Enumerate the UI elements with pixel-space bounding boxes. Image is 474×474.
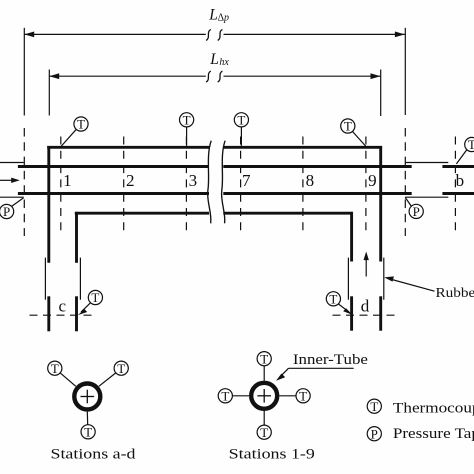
cross-section a-d thermocouple upper-left bbox=[48, 361, 62, 376]
tube b segment walls bbox=[442, 167, 474, 194]
cross-section a-d thermocouple bottom bbox=[81, 424, 95, 439]
svg-text:T: T bbox=[260, 425, 268, 440]
cross-section stations a-d : inner ring bbox=[74, 384, 100, 410]
svg-text:T: T bbox=[91, 290, 99, 305]
svg-text:b: b bbox=[456, 171, 465, 190]
cross-section 1-9 connector bottom bbox=[263, 411, 265, 425]
tube break squiggle right bbox=[222, 141, 226, 224]
inner tube bottom wall bbox=[18, 192, 412, 195]
right leg hose (rubber tubing) bbox=[348, 258, 383, 300]
svg-text:Inner-Tube: Inner-Tube bbox=[293, 352, 368, 368]
station line b bbox=[454, 137, 456, 235]
station line 7 bbox=[240, 137, 242, 234]
svg-text:9: 9 bbox=[368, 171, 377, 190]
svg-text:7: 7 bbox=[242, 171, 251, 190]
left stub tube walls (station c) bbox=[49, 296, 77, 331]
outer tube bottom wall bbox=[75, 212, 353, 215]
svg-text:c: c bbox=[59, 297, 67, 316]
cross-section 1-9 thermocouple right bbox=[296, 388, 310, 403]
cross-section 1-9 connector right bbox=[279, 395, 296, 397]
station line c bbox=[30, 314, 96, 316]
pressure tap P left bbox=[0, 198, 24, 219]
svg-text:T: T bbox=[329, 291, 337, 306]
station line 1 bbox=[60, 137, 62, 234]
outer tube top wall bbox=[47, 146, 382, 149]
svg-text:2: 2 bbox=[126, 171, 135, 190]
legend pressure tap symbol bbox=[367, 426, 381, 441]
svg-text:Δp: Δp bbox=[218, 13, 229, 24]
left leg hose (rubber tubing) bbox=[45, 258, 80, 300]
svg-text:3: 3 bbox=[189, 171, 198, 190]
svg-text:hx: hx bbox=[219, 57, 229, 68]
left annulus leg inner wall bbox=[75, 212, 78, 263]
label L_hx bbox=[209, 51, 229, 68]
station line 9 bbox=[365, 137, 367, 234]
extension line right L_dp (pressure tap b side) bbox=[404, 28, 406, 236]
thermocouple T station 3 bbox=[180, 112, 194, 145]
rubber tubing label bbox=[384, 276, 474, 301]
flow arrow inlet bbox=[0, 178, 20, 183]
cross-section 1-9 thermocouple top bbox=[257, 351, 271, 366]
extension line left L_hx bbox=[48, 70, 50, 116]
svg-text:P: P bbox=[413, 204, 420, 219]
cross-section 1-9 connector left bbox=[232, 395, 249, 397]
thermocouple T station 7 bbox=[234, 112, 248, 145]
pressure tap P right bbox=[405, 197, 423, 219]
svg-text:T: T bbox=[299, 388, 307, 403]
thermocouple T station c bbox=[78, 290, 103, 315]
svg-text:L: L bbox=[208, 6, 218, 23]
svg-text:T: T bbox=[51, 361, 59, 376]
station line 2 bbox=[123, 137, 125, 234]
inlet hose left (rubber tubing, inner tube inlet) bbox=[0, 163, 24, 198]
svg-text:T: T bbox=[370, 399, 378, 414]
svg-text:P: P bbox=[3, 204, 10, 219]
legend thermocouple symbol bbox=[367, 399, 381, 414]
svg-text:T: T bbox=[117, 361, 125, 376]
cross-section 1-9 connector top bbox=[263, 366, 265, 381]
svg-text:Thermocouple: Thermocouple bbox=[393, 401, 474, 417]
cross-section 1-9 plus mark bbox=[257, 389, 271, 403]
cross-section a-d connector bottom bbox=[86, 412, 88, 425]
svg-text:1: 1 bbox=[63, 171, 72, 190]
right annulus leg inner wall bbox=[350, 212, 353, 262]
svg-text:T: T bbox=[344, 119, 352, 134]
svg-text:d: d bbox=[361, 296, 370, 315]
thermocouple T station d bbox=[326, 291, 352, 314]
tube break squiggle left bbox=[208, 141, 212, 224]
station line d bbox=[333, 314, 399, 316]
label L_dp bbox=[208, 6, 229, 23]
extension line left L_dp (pressure tap a) bbox=[23, 28, 25, 236]
svg-text:Stations a-d: Stations a-d bbox=[51, 447, 137, 463]
thermocouple T station b bbox=[456, 137, 474, 164]
svg-text:T: T bbox=[221, 388, 229, 403]
svg-text:T: T bbox=[183, 112, 191, 127]
svg-text:T: T bbox=[468, 137, 474, 152]
svg-text:T: T bbox=[237, 112, 245, 127]
svg-text:T: T bbox=[84, 424, 92, 439]
thermocouple T station 9 bbox=[341, 119, 366, 147]
right annulus leg outer wall bbox=[379, 146, 382, 262]
outlet hose right (rubber tubing, inner tube outlet) bbox=[405, 163, 448, 198]
cross-section a-d connector upper-right bbox=[99, 373, 116, 386]
svg-text:Rubber Tubing: Rubber Tubing bbox=[436, 286, 474, 301]
svg-text:P: P bbox=[371, 426, 378, 441]
dimension line L_hx bbox=[49, 71, 380, 82]
station line 8 bbox=[302, 137, 304, 234]
dimension line L_dp bbox=[24, 29, 405, 40]
svg-text:T: T bbox=[260, 351, 268, 366]
cross-section a-d thermocouple upper-right bbox=[114, 361, 128, 376]
cross-section a-d connector upper-left bbox=[60, 373, 76, 386]
svg-text:8: 8 bbox=[306, 171, 315, 190]
cross-section 1-9 thermocouple bottom bbox=[257, 425, 271, 440]
flow arrow up right leg bbox=[364, 252, 369, 277]
inner tube label bbox=[276, 352, 368, 381]
svg-text:T: T bbox=[77, 117, 85, 132]
svg-text:Stations 1-9: Stations 1-9 bbox=[229, 447, 315, 463]
right stub tube walls (station d) bbox=[352, 296, 381, 330]
inner tube top wall bbox=[18, 165, 412, 168]
svg-text:Pressure Tap: Pressure Tap bbox=[393, 426, 474, 442]
thermocouple T station 1 bbox=[61, 117, 88, 147]
station line 3 bbox=[185, 137, 187, 234]
left annulus leg outer wall bbox=[47, 146, 50, 263]
cross-section 1-9 thermocouple left bbox=[218, 388, 232, 403]
cross-section stations 1-9 : inner ring bbox=[251, 383, 277, 409]
cross-section a-d plus mark bbox=[81, 390, 95, 404]
svg-text:L: L bbox=[209, 51, 219, 68]
extension line right L_hx bbox=[380, 70, 382, 117]
